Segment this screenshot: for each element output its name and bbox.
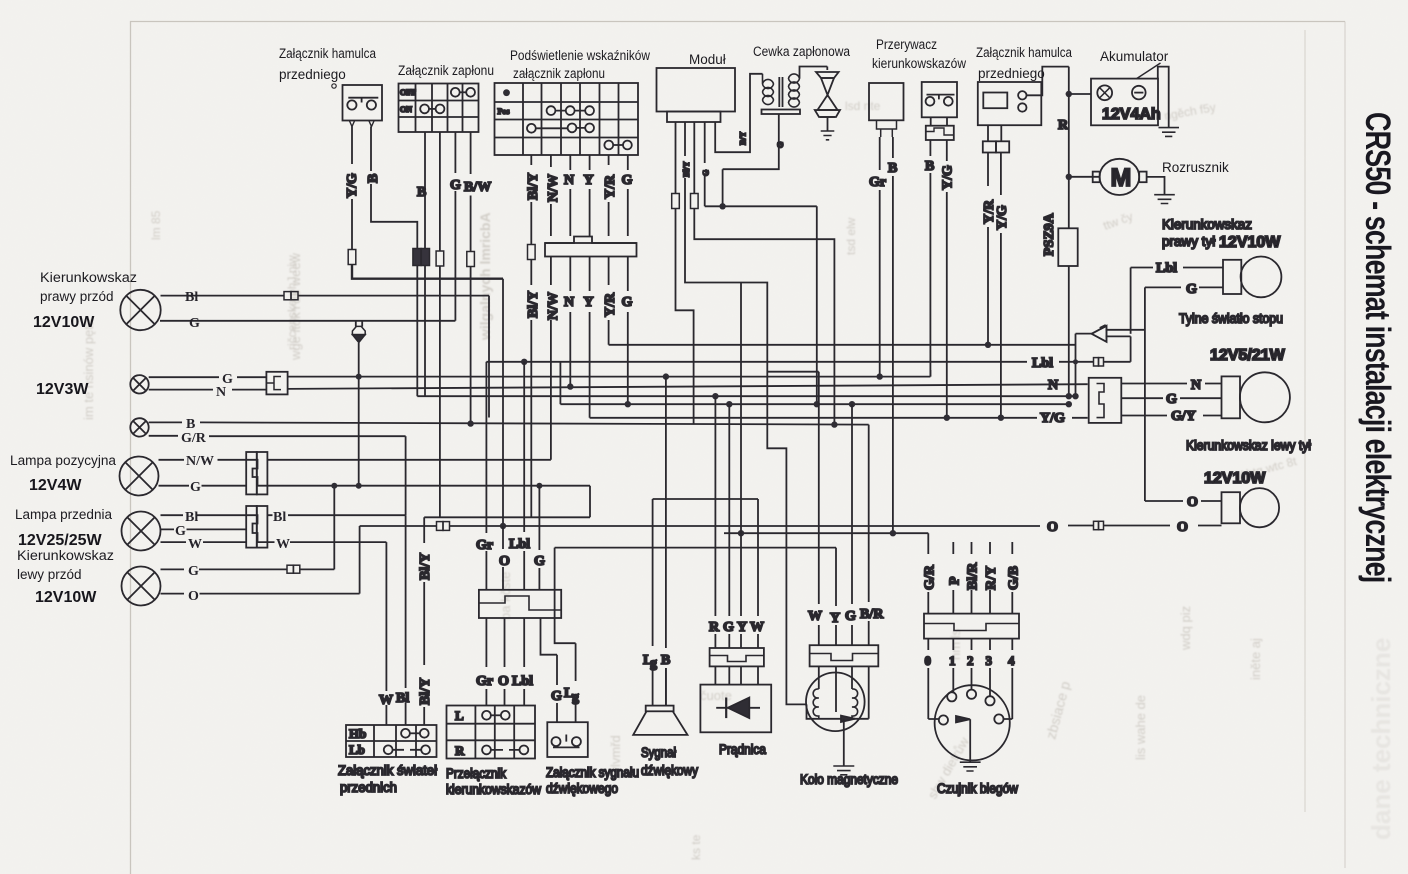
headlight switch grid — [346, 725, 437, 757]
wire Bl/Y grid — [530, 155, 532, 517]
battery minus terminal — [1132, 86, 1146, 100]
horn B wire vertical — [665, 377, 667, 706]
svg-text:O: O — [499, 554, 510, 569]
svg-text:Bl: Bl — [185, 290, 198, 305]
Bl line right of connector — [267, 514, 405, 516]
horn speaker wires — [653, 499, 666, 706]
svg-text:M: M — [1111, 164, 1132, 192]
svg-text:prawy przód: prawy przód — [40, 289, 114, 304]
czujnik arrow — [956, 716, 970, 722]
svg-text:Lbl: Lbl — [509, 537, 530, 552]
svg-text:12V4W: 12V4W — [29, 477, 82, 494]
coil core — [779, 77, 782, 107]
svg-text:N/W: N/W — [546, 292, 561, 320]
brake3 lower connector — [983, 141, 1009, 152]
svg-text:Podświetlenie wskaźników: Podświetlenie wskaźników — [510, 48, 650, 63]
wire N to big bulb — [1121, 383, 1221, 385]
wire B small lamp — [149, 422, 869, 424]
connector on O line left — [437, 522, 450, 531]
czujnik ground stem — [969, 719, 971, 762]
connector on O line right — [1094, 521, 1104, 529]
wire Y/G brake3 — [1000, 153, 1002, 418]
lamp kierunkowskaz lewy przod — [122, 567, 161, 606]
svg-text:Y: Y — [584, 173, 594, 188]
pradnica box with diode — [700, 685, 771, 733]
svg-text:G/R: G/R — [181, 431, 207, 446]
connector ign wire2 — [436, 251, 444, 266]
Y/G line — [590, 417, 1088, 419]
junction dot N line grid — [567, 383, 573, 389]
lamp pozycyjna 12V4W — [120, 457, 159, 496]
svg-text:N: N — [564, 173, 574, 188]
wire N grid — [569, 155, 571, 385]
connector B/W wire — [467, 252, 475, 267]
headlight riser Bl — [405, 515, 407, 725]
wire B brake2 — [929, 140, 931, 377]
wire G grid — [627, 155, 629, 404]
wire G/R small lamp — [149, 435, 406, 437]
G net left elbow up to Lbl line — [559, 362, 561, 404]
O bus line — [360, 525, 1222, 528]
svg-text:wdq piz: wdq piz — [1178, 606, 1193, 651]
brake1 pins — [349, 121, 374, 127]
R line battery to ignition — [417, 395, 1075, 397]
Lbl line — [486, 361, 1130, 363]
svg-text:Akumulator: Akumulator — [1100, 49, 1169, 64]
svg-text:ks te: ks te — [689, 834, 703, 860]
bulb right rear indicator — [1223, 257, 1281, 298]
svg-text:Przełącznik: Przełącznik — [446, 766, 506, 781]
svg-text:12V10W: 12V10W — [33, 314, 95, 331]
grid contacts row2 — [547, 106, 594, 115]
G line long (G net) — [288, 376, 931, 378]
svg-text:Prądnica: Prądnica — [719, 742, 766, 757]
svg-text:Pos: Pos — [498, 107, 510, 116]
junction dot G line horn — [663, 373, 669, 379]
wire Bl lamp5 — [161, 514, 247, 516]
junction dots H533 — [738, 530, 896, 536]
svg-text:Y: Y — [584, 295, 594, 310]
svg-text:N: N — [1191, 378, 1201, 393]
svg-text:G: G — [189, 316, 200, 331]
svg-text:O: O — [1177, 520, 1188, 535]
pradnica bar to box wires — [715, 666, 758, 684]
svg-text:Bl: Bl — [185, 510, 198, 525]
junction dot battery feed — [1066, 91, 1072, 97]
coil base plate — [762, 110, 801, 115]
czujnik wires below bar — [928, 639, 1012, 719]
svg-text:O: O — [188, 589, 199, 604]
kolo circle — [806, 673, 865, 732]
wire Y/G from brake1 — [351, 127, 353, 250]
kolo bar to circle wires — [819, 666, 869, 718]
ignition switch grid (Zalacznik zaplonu) — [399, 84, 479, 133]
wire G lamp6 — [161, 568, 288, 570]
connector on Lbl line — [1094, 358, 1104, 366]
G bus line — [267, 485, 590, 487]
svg-text:Y/G: Y/G — [995, 205, 1010, 230]
headlight riser W — [385, 542, 387, 725]
W-line to pradnica — [653, 498, 758, 500]
wire O lamp6 — [161, 526, 360, 594]
svg-text:Przerywacz: Przerywacz — [876, 37, 937, 52]
kolo W elbow — [767, 371, 819, 373]
svg-text:Y: Y — [830, 611, 840, 626]
svg-text:G/B: G/B — [1007, 566, 1022, 590]
W line right of connector — [267, 541, 386, 543]
grid contacts row4 — [604, 141, 631, 150]
connector Bl/Y — [528, 245, 536, 260]
svg-text:kierunkowskazów: kierunkowskazów — [872, 56, 966, 71]
svg-text:Hb: Hb — [349, 726, 366, 741]
connector lampa przednia — [246, 506, 267, 548]
horn Lg zigzag — [555, 548, 576, 723]
kolo magnetyczne wires W Y G B/R — [819, 372, 869, 646]
svg-text:12V4Ah: 12V4Ah — [1102, 106, 1161, 123]
vertical from sleeve down to Lbl line — [1130, 336, 1132, 361]
svg-text:Lb: Lb — [349, 742, 365, 757]
pradnica connector bar — [710, 648, 764, 666]
svg-text:Lbl: Lbl — [512, 674, 533, 689]
svg-text:W: W — [188, 537, 202, 552]
wire Y/R grid — [608, 155, 610, 345]
junction dots Y/G line — [944, 415, 1005, 421]
coil center tap down-left-down — [723, 114, 779, 206]
H533 line to czujnik — [724, 532, 928, 534]
kolo arrow — [841, 716, 855, 722]
svg-text:G: G — [1186, 282, 1197, 297]
svg-text:Tylne światło stopu: Tylne światło stopu — [1179, 311, 1283, 326]
switch connector bar — [479, 590, 561, 618]
kolo connector bar — [810, 645, 879, 666]
bullet sleeve rails — [1106, 330, 1146, 337]
svg-text:Kierunkowskaz lewy tył: Kierunkowskaz lewy tył — [1186, 438, 1311, 453]
svg-text:Y/G: Y/G — [345, 173, 360, 198]
svg-text:Gr: Gr — [476, 674, 493, 689]
svg-text:R: R — [1058, 118, 1069, 133]
wire Bl vertical down to Y/G line — [488, 296, 490, 418]
svg-text:CRS50 - schemat instalacji ele: CRS50 - schemat instalacji elektrycznej — [1358, 112, 1397, 582]
svg-text:lsd nte: lsd nte — [845, 99, 881, 113]
junction dots left — [331, 374, 542, 489]
arrow feed vertical — [1075, 334, 1077, 397]
brake3 stubs to connector — [988, 125, 1001, 141]
horn switch box — [547, 722, 588, 757]
svg-text:Załącznik świateł: Załącznik świateł — [338, 763, 437, 778]
svg-text:Lampa pozycyjna: Lampa pozycyjna — [10, 453, 116, 468]
wire W lamp5 — [161, 541, 247, 543]
wire from brake3 to battery top — [1027, 67, 1092, 96]
Bl/Y headlight link line — [424, 486, 590, 518]
svg-text:N: N — [564, 295, 574, 310]
svg-text:G/R: G/R — [923, 564, 938, 590]
speck — [332, 84, 336, 88]
flasher plug below — [877, 120, 897, 137]
svg-text:G: G — [450, 178, 461, 193]
fuse PSZ9A — [1058, 228, 1077, 266]
svg-text:2: 2 — [967, 653, 974, 668]
spark plug ground — [821, 131, 835, 140]
rozrusznik motor — [1093, 159, 1147, 195]
battery akumulator box — [1091, 79, 1158, 126]
bullet connector arrow — [1092, 326, 1107, 342]
svg-text:Y/R: Y/R — [603, 174, 618, 199]
svg-text:R: R — [455, 743, 465, 758]
svg-text:Koło magnetyczne: Koło magnetyczne — [800, 772, 898, 787]
svg-text:Rozrusznik: Rozrusznik — [1162, 160, 1229, 175]
svg-text:W: W — [379, 693, 393, 708]
czujnik pins — [939, 690, 1004, 725]
svg-text:Bl/Y: Bl/Y — [418, 678, 433, 705]
bus from pin4 right — [705, 206, 817, 404]
svg-text:12V25/25W: 12V25/25W — [18, 532, 103, 549]
wire N/W grid — [550, 155, 552, 460]
battery ground — [1159, 128, 1180, 137]
svg-text:Załącznik zapłonu: Załącznik zapłonu — [398, 63, 494, 78]
svg-text:Gr: Gr — [869, 175, 886, 190]
svg-text:B/R: B/R — [860, 607, 884, 622]
connector pin1 — [672, 194, 680, 209]
svg-text:Kierunkowskaz: Kierunkowskaz — [1162, 217, 1252, 232]
svg-text:B: B — [925, 159, 934, 174]
svg-text:B: B — [366, 174, 381, 183]
G net line — [560, 403, 1068, 405]
svg-text:0: 0 — [925, 653, 932, 668]
kolo ground — [833, 766, 854, 775]
czujnik connector bar — [924, 614, 1019, 639]
svg-text:OFF: OFF — [400, 88, 416, 97]
battery pointer line — [1136, 63, 1161, 79]
Lg-koloY link line — [555, 547, 836, 549]
ignition wire B — [424, 132, 426, 249]
junction dots G net — [625, 401, 1072, 407]
svg-text:dane techniczne: dane techniczne — [1366, 638, 1396, 840]
connector G lamp6 — [287, 565, 300, 573]
junction dot G line Gr flasher — [877, 373, 883, 379]
junction dot coil tap — [719, 203, 725, 209]
svg-text:Bl: Bl — [273, 510, 286, 525]
starter right wire to ground — [1147, 177, 1165, 195]
grid dot r1c1 — [503, 89, 510, 96]
brake switch 1 box (Zalacznik hamulca przedniego) — [343, 85, 383, 121]
svg-text:1: 1 — [949, 653, 956, 668]
N/W line to grid riser — [267, 459, 551, 461]
brake2 stub wires — [931, 117, 947, 125]
svg-text:przedniego: przedniego — [279, 67, 346, 82]
svg-text:Załącznik hamulca: Załącznik hamulca — [279, 46, 376, 61]
ignition contacts row1 — [451, 88, 475, 97]
turn signal contacts L — [482, 711, 510, 720]
svg-text:Bl/Y: Bl/Y — [418, 553, 433, 580]
svg-text:B/W: B/W — [464, 180, 491, 195]
svg-text:Bl/Y: Bl/Y — [526, 291, 541, 318]
svg-text:ričcenska phJ niw: ričcenska phJ niw — [285, 255, 299, 350]
svg-text:Y/R: Y/R — [603, 292, 618, 317]
svg-text:N/W: N/W — [186, 454, 214, 469]
svg-text:lis wahe de: lis wahe de — [1133, 695, 1148, 760]
svg-text:R/Y: R/Y — [984, 566, 999, 590]
svg-text:ON: ON — [400, 105, 412, 114]
svg-text:G: G — [723, 620, 734, 635]
wire Y grid — [589, 155, 591, 418]
svg-text:Załącznik sygnału: Załącznik sygnału — [546, 765, 639, 780]
connector on Bl wire — [284, 292, 298, 300]
modul pin3 wire — [694, 122, 834, 425]
svg-text:N: N — [216, 385, 226, 400]
svg-text:G/Y: G/Y — [1171, 409, 1196, 424]
double connector on B wires — [413, 249, 430, 266]
svg-text:G: G — [188, 564, 199, 579]
junction dots B line — [467, 420, 837, 427]
vertical Lbl down to Lbl line — [1130, 268, 1132, 334]
modul pin2 wire Bl/Y — [685, 122, 806, 704]
riser G to horn — [539, 486, 557, 723]
connector on Y/G wire — [348, 250, 356, 265]
modul pin5 wire to coil — [715, 74, 762, 152]
czujnik pin links — [928, 718, 1012, 720]
brake switch 3 box (zalacznik hamulca przedniego right) — [978, 82, 1042, 125]
ignition contacts row2 — [420, 105, 444, 114]
svg-text:wilgalnych lmricbA: wilgalnych lmricbA — [477, 212, 493, 341]
wire N 12V3W — [149, 389, 267, 391]
svg-text:O: O — [498, 674, 509, 689]
svg-text:G: G — [534, 554, 545, 569]
wire G lamp5 — [161, 528, 247, 530]
svg-text:Y: Y — [737, 620, 747, 635]
svg-text:3: 3 — [986, 653, 993, 668]
lamp: kierunkowskaz prawy przod 12V10W — [120, 290, 160, 330]
bullet connector (heart) — [352, 326, 365, 342]
svg-text:lm 85: lm 85 — [149, 210, 163, 240]
Y/R line — [609, 344, 1076, 346]
svg-text:tsd elw: tsd elw — [844, 217, 858, 255]
battery right wire to ground — [1158, 67, 1169, 128]
svg-text:12V3W: 12V3W — [36, 381, 89, 398]
svg-text:lewy przód: lewy przód — [17, 567, 82, 582]
ignition wire 2 — [439, 132, 441, 517]
przerywacz kierunkowskazow box — [869, 83, 904, 120]
svg-text:B: B — [186, 417, 195, 432]
junction dot Lbl-switch riser — [521, 359, 527, 365]
junction dot starter — [1066, 174, 1072, 180]
junction dot R-prądnica — [712, 393, 718, 399]
modul pin1 wire B/W — [676, 122, 694, 424]
svg-text:12V10W: 12V10W — [35, 589, 97, 606]
B wires continue to R line — [417, 266, 425, 397]
coil secondary — [789, 74, 800, 107]
svg-text:załącznik zapłonu: załącznik zapłonu — [513, 66, 605, 81]
svg-text:Lampa przednia: Lampa przednia — [15, 507, 112, 522]
connector 12V3W — [266, 372, 287, 395]
svg-text:Y/G: Y/G — [941, 165, 956, 190]
svg-text:W: W — [750, 620, 764, 635]
turn signal riser Lbl — [523, 362, 525, 706]
svg-text:Lbl: Lbl — [1032, 356, 1053, 371]
wire G right rear — [1145, 286, 1223, 288]
czujnik wires — [928, 533, 1012, 613]
starter ground — [1154, 195, 1175, 204]
svg-text:Bl/Y: Bl/Y — [526, 173, 541, 200]
svg-text:PSZ9A: PSZ9A — [1042, 212, 1057, 256]
coil secondary top lead to spark plug — [800, 67, 828, 79]
wire Y/G elbow right and down — [352, 265, 503, 279]
svg-text:B: B — [417, 185, 426, 200]
junction dot O switch — [500, 523, 506, 529]
svg-text:G: G — [776, 142, 785, 148]
svg-text:iněte aj: iněte aj — [1248, 638, 1263, 680]
wire G front-right indicator to heart connector — [160, 321, 455, 327]
wire G 12V3W — [149, 376, 267, 378]
wire G lamp4 — [159, 485, 247, 487]
svg-text:G: G — [175, 524, 186, 539]
wire Y/G brake2 — [946, 140, 948, 418]
lamp przednia 12V25/25W — [122, 512, 161, 551]
wire G to big bulb — [1121, 397, 1221, 399]
svg-text:Y/G: Y/G — [1040, 411, 1065, 426]
svg-text:g: g — [650, 656, 657, 671]
grid contacts row3 — [527, 124, 594, 133]
battery plus terminal — [1097, 85, 1112, 100]
svg-text:W: W — [276, 537, 290, 552]
modul box — [657, 68, 736, 112]
connector lampa pozycyjna — [246, 452, 267, 494]
svg-text:N: N — [1048, 378, 1058, 393]
junction dot R line at fuse — [1066, 393, 1072, 399]
coil cewka zaplonowa primary — [763, 74, 774, 105]
pradnica wires R G Y W — [715, 283, 758, 649]
svg-text:N/W: N/W — [546, 174, 561, 202]
svg-text:W: W — [808, 609, 822, 624]
svg-text:G: G — [622, 173, 633, 188]
wire B from brake1 — [371, 127, 417, 249]
czujnik ground — [960, 762, 981, 771]
svg-text:Bl: Bl — [396, 691, 409, 706]
svg-text:Gr: Gr — [476, 538, 493, 553]
headlight contacts row1 — [401, 729, 429, 738]
rear light connector box — [1089, 378, 1122, 423]
N line long — [288, 384, 1088, 389]
svg-text:G: G — [1166, 392, 1177, 407]
svg-text:L: L — [455, 708, 464, 723]
wire B flasher — [892, 137, 894, 533]
czujnik circle — [935, 685, 1010, 760]
svg-text:dźwiękowego: dźwiękowego — [546, 781, 618, 796]
G line right elbow up — [929, 370, 931, 377]
wire Gr flasher — [879, 137, 881, 377]
svg-text:12V5/21W: 12V5/21W — [1210, 347, 1286, 364]
podswietlenie wskaznikow grid box — [495, 83, 639, 155]
svg-text:kierunkowskazów: kierunkowskazów — [446, 782, 541, 797]
bulb left rear indicator — [1222, 488, 1280, 527]
turn signal contacts R — [482, 746, 528, 755]
svg-text:dźwiękowy: dźwiękowy — [641, 763, 698, 778]
svg-text:im te nsinów pęta: im te nsinów pęta — [81, 318, 96, 420]
diode — [716, 698, 760, 719]
wire Bl front-right indicator — [161, 295, 490, 297]
svg-text:prawy tył 12V10W: prawy tył 12V10W — [1162, 234, 1281, 251]
svg-text:O: O — [1047, 520, 1058, 535]
connector pin3 — [691, 194, 699, 209]
svg-text:G: G — [622, 295, 633, 310]
modul pin strip — [667, 112, 721, 123]
svg-text:4: 4 — [1008, 653, 1015, 668]
modul pin4 wire G — [704, 122, 706, 206]
wire G lamp6 to G bus riser — [300, 486, 335, 570]
kolo ground stem — [843, 719, 845, 766]
junction dot Y/R brake3 — [985, 342, 991, 348]
svg-text:Moduł: Moduł — [689, 52, 726, 67]
svg-text:B/Y: B/Y — [739, 131, 748, 145]
